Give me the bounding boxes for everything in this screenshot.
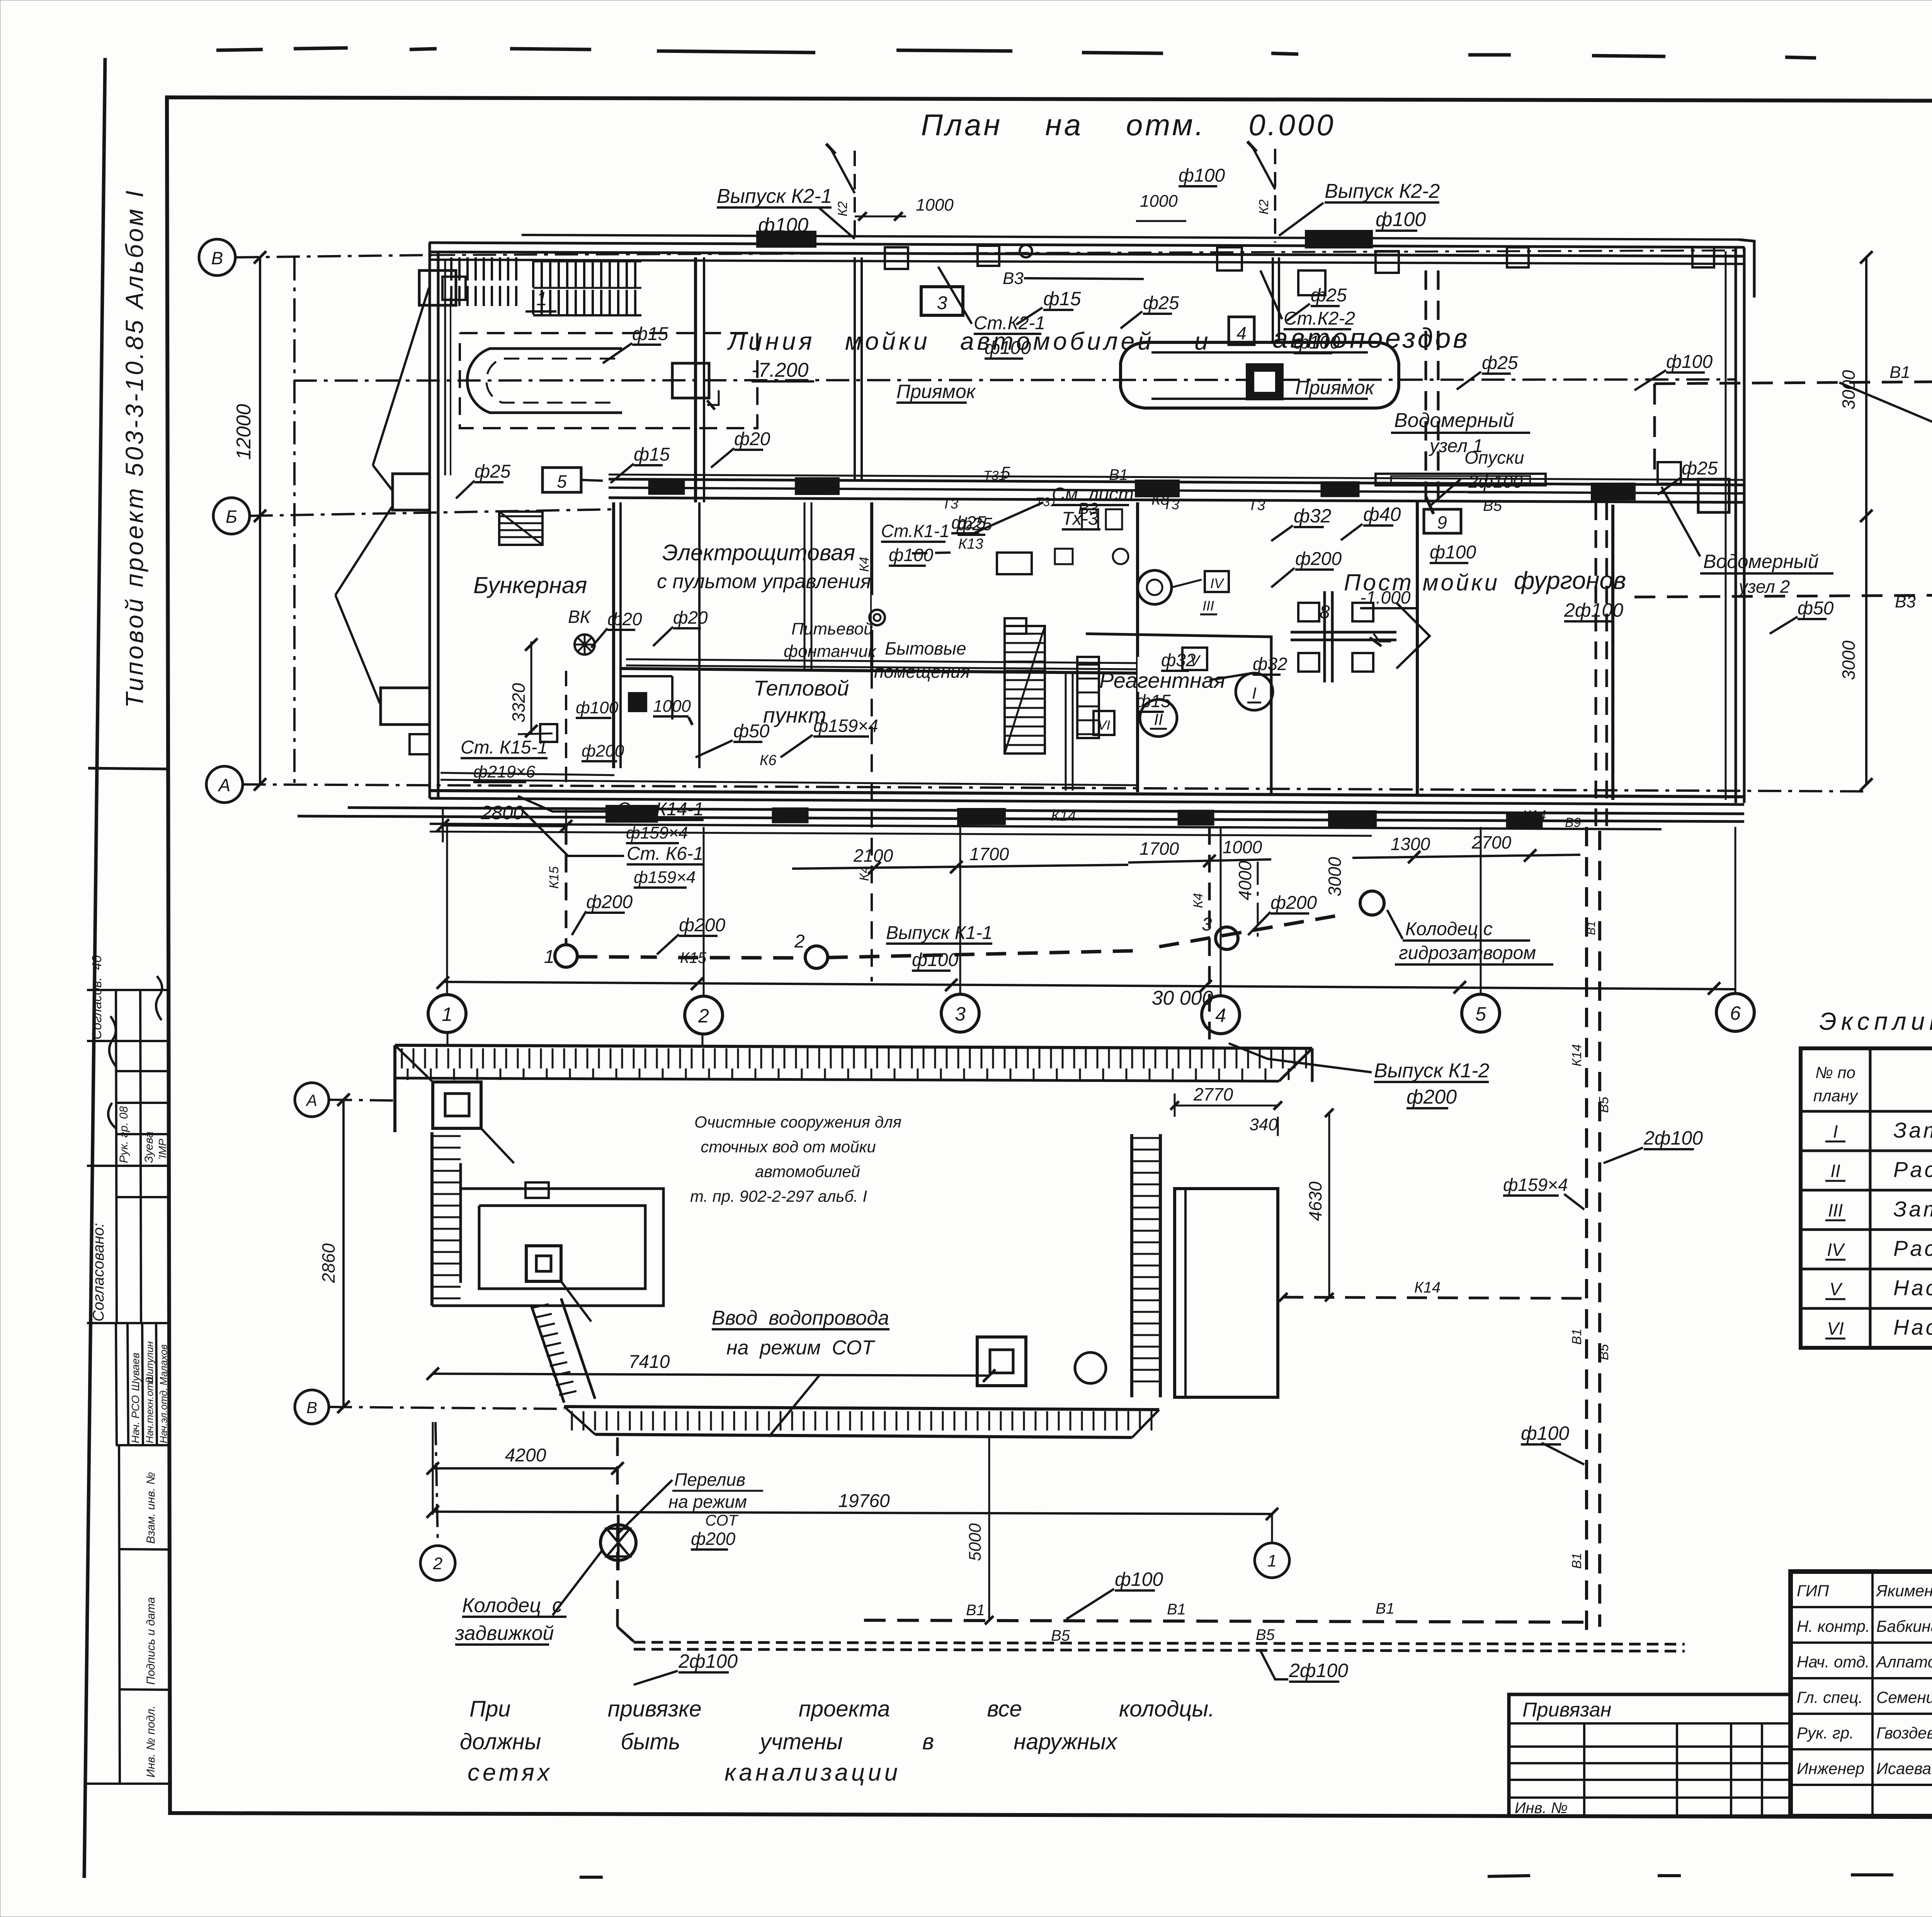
svg-text:Согласов. 40: Согласов. 40 bbox=[90, 955, 104, 1039]
pipes left wall bbox=[445, 259, 451, 475]
svg-text:В5: В5 bbox=[1483, 497, 1502, 514]
B1 horiz dashed bbox=[864, 1600, 1587, 1622]
och dim 2860 bbox=[318, 1094, 350, 1413]
svg-text:2: 2 bbox=[794, 931, 805, 952]
dim 1700 1000 bbox=[1128, 837, 1271, 867]
dim 2100 1700 bbox=[792, 844, 1128, 874]
bottom pipe blob2 bbox=[958, 809, 1005, 824]
svg-text:2: 2 bbox=[698, 1005, 709, 1027]
left strip divider bbox=[88, 768, 168, 769]
svg-text:2ф100: 2ф100 bbox=[1643, 1127, 1703, 1149]
left strip staff names bbox=[129, 1341, 169, 1443]
svg-text:I: I bbox=[1833, 1121, 1838, 1141]
svg-text:В1: В1 bbox=[966, 1602, 985, 1619]
svg-text:ф200: ф200 bbox=[1270, 893, 1317, 913]
svg-text:Согласовано:: Согласовано: bbox=[90, 1223, 107, 1322]
svg-text:Колодец с: Колодец с bbox=[1405, 919, 1493, 939]
och tank right bbox=[1175, 1189, 1278, 1397]
svg-text:19760: 19760 bbox=[838, 1491, 890, 1511]
svg-text:1000: 1000 bbox=[1223, 837, 1262, 857]
label f15 upper bbox=[611, 444, 670, 483]
bottom band blob4 bbox=[773, 808, 1542, 827]
table title bbox=[1819, 1007, 1932, 1035]
table frame bbox=[1801, 1048, 1932, 1348]
left strip staff rows bbox=[116, 1323, 170, 1445]
note line2 bbox=[460, 1729, 1118, 1754]
box 3 top bbox=[921, 287, 963, 315]
label f200 post bbox=[1271, 549, 1342, 587]
svg-text:на режим: на режим bbox=[668, 1492, 747, 1512]
svg-text:с пультом управления: с пультом управления bbox=[657, 570, 871, 593]
vypusk K2-2 bbox=[1279, 180, 1440, 236]
svg-text:Алпатов: Алпатов bbox=[1875, 1653, 1932, 1671]
och dim 7410 bbox=[427, 1352, 995, 1382]
svg-text:Очистные сооружения для: Очистные сооружения для bbox=[694, 1113, 901, 1131]
svg-text:2700: 2700 bbox=[1471, 832, 1512, 852]
och label pereliv bbox=[617, 1470, 763, 1550]
label st K14-1 bbox=[518, 796, 704, 843]
K14 horiz dashed bbox=[1279, 1279, 1587, 1301]
svg-text:Типовой проект 503-3-10.85 Аль: Типовой проект 503-3-10.85 Альбом I bbox=[121, 188, 148, 708]
svg-text:Инженер: Инженер bbox=[1797, 1759, 1864, 1778]
label opuski bbox=[1426, 447, 1524, 514]
label 5b bbox=[989, 463, 1020, 499]
svg-text:Якименко: Якименко bbox=[1876, 1582, 1932, 1600]
svg-text:При привязке проекта все колод: При привязке проекта все колодцы. bbox=[469, 1696, 1214, 1721]
svg-text:2770: 2770 bbox=[1193, 1084, 1233, 1104]
label f25 r3 bbox=[1457, 353, 1518, 390]
svg-text:Приямок: Приямок bbox=[1295, 377, 1375, 398]
axis circle 5 bbox=[1462, 827, 1500, 1032]
bottom pipe band bbox=[298, 808, 1744, 836]
och dim 2770 bbox=[1170, 1084, 1282, 1117]
svg-text:1300: 1300 bbox=[1391, 834, 1430, 854]
wall reagent bbox=[1086, 634, 1271, 794]
och dim 19760 bbox=[427, 1491, 1278, 1520]
label 2f100 right bbox=[1604, 1127, 1703, 1163]
svg-text:2800: 2800 bbox=[480, 802, 524, 823]
svg-text:-1.000: -1.000 bbox=[1360, 587, 1411, 607]
svg-text:СОТ: СОТ bbox=[705, 1512, 739, 1529]
left strip lower cells bbox=[87, 1445, 171, 1784]
box label 4 bbox=[1229, 317, 1254, 345]
left outer dashdot vertical bbox=[293, 257, 296, 784]
scan bottom edge dashes bbox=[580, 1873, 1932, 1877]
label f25 left bbox=[456, 461, 511, 498]
svg-text:ф159×4: ф159×4 bbox=[1503, 1175, 1568, 1195]
svg-text:ф100: ф100 bbox=[1294, 332, 1340, 353]
mid band blob1 bbox=[796, 478, 838, 494]
label f100 right bbox=[1634, 352, 1713, 390]
svg-text:I: I bbox=[1252, 684, 1257, 702]
och diag band bbox=[531, 1298, 595, 1403]
svg-text:1: 1 bbox=[1267, 1551, 1277, 1570]
svg-text:должны быть учтены в наружных: должны быть учтены в наружных bbox=[460, 1729, 1118, 1754]
svg-text:помещения: помещения bbox=[874, 662, 970, 682]
mid band blob2 bbox=[1136, 481, 1179, 496]
label liniya moiki bbox=[727, 323, 1470, 355]
wash pit left box bbox=[672, 363, 709, 398]
dim 4000 rot bbox=[1235, 861, 1258, 939]
leader lines upper left bbox=[335, 288, 429, 703]
svg-text:ф15: ф15 bbox=[632, 324, 668, 344]
small eq top2 bbox=[1217, 247, 1399, 295]
och dim 5000 bbox=[966, 1437, 993, 1624]
svg-text:3320: 3320 bbox=[509, 683, 529, 723]
svg-text:ф50: ф50 bbox=[1798, 598, 1834, 619]
svg-text:4: 4 bbox=[1236, 323, 1247, 343]
svg-text:К15: К15 bbox=[680, 949, 707, 966]
svg-text:9: 9 bbox=[1437, 512, 1447, 532]
vert pipe x2218 bbox=[855, 257, 862, 479]
dim 1000 top2 bbox=[1136, 192, 1186, 221]
svg-text:5: 5 bbox=[1475, 1003, 1486, 1025]
svg-text:Инв. № подл.: Инв. № подл. bbox=[145, 1706, 157, 1778]
equip circle IV bbox=[1138, 570, 1229, 614]
svg-text:плану: плану bbox=[1813, 1087, 1859, 1105]
svg-text:Б: Б bbox=[226, 507, 237, 527]
svg-text:ф15: ф15 bbox=[1136, 691, 1171, 711]
svg-text:В: В bbox=[211, 248, 223, 268]
svg-text:Гвоздев: Гвоздев bbox=[1876, 1724, 1932, 1742]
label f20 pair bbox=[591, 607, 708, 648]
well 3 bbox=[1202, 914, 1238, 949]
table row II bbox=[1825, 1157, 1932, 1182]
svg-text:Насос - дозатор: Насос - дозатор bbox=[1893, 1315, 1932, 1339]
label f200 bl1 bbox=[572, 892, 633, 935]
svg-text:ф200: ф200 bbox=[1406, 1086, 1457, 1108]
svg-text:Колодец с: Колодец с bbox=[462, 1594, 562, 1617]
label f100 1000 bbox=[576, 697, 692, 725]
label f159x4 teplo bbox=[781, 716, 878, 757]
svg-text:8: 8 bbox=[1320, 602, 1330, 623]
svg-text:ф25: ф25 bbox=[1682, 458, 1718, 479]
inv no text bbox=[1515, 1800, 1568, 1817]
wall x4180 bbox=[1611, 505, 1614, 800]
svg-text:К2: К2 bbox=[835, 201, 850, 216]
svg-text:Ст. К6-1: Ст. К6-1 bbox=[627, 844, 703, 864]
left wall block low bbox=[381, 688, 430, 725]
label f25 mid bbox=[951, 512, 986, 533]
svg-text:Перелив: Перелив bbox=[674, 1470, 745, 1490]
svg-text:Водомерный: Водомерный bbox=[1394, 409, 1514, 432]
wall x2950 bbox=[1136, 502, 1139, 792]
svg-text:Линия мойки автомобилей: Линия мойки автомобилей и bbox=[727, 327, 1211, 355]
svg-text:В3: В3 bbox=[1895, 592, 1916, 611]
label f25 r5 bbox=[957, 514, 992, 535]
title block staff Инженер bbox=[1797, 1759, 1931, 1778]
svg-text:Выпуск К2-1: Выпуск К2-1 bbox=[717, 185, 832, 208]
axis circle A bbox=[206, 766, 243, 803]
svg-text:ф100: ф100 bbox=[889, 545, 934, 565]
svg-text:Ст.К2-1: Ст.К2-1 bbox=[974, 313, 1045, 333]
svg-text:7410: 7410 bbox=[629, 1352, 670, 1372]
label f32 f40 bbox=[1271, 503, 1401, 541]
svg-text:фургонов: фургонов bbox=[1514, 566, 1626, 594]
svg-text:4200: 4200 bbox=[505, 1445, 546, 1466]
label pryamok left bbox=[896, 381, 976, 403]
vypusk K2-1 bbox=[717, 185, 855, 239]
svg-text:Расходный бак полиакриламид: Расходный бак полиакриламида bbox=[1893, 1236, 1932, 1260]
label f100 post9 bbox=[1424, 509, 1476, 563]
left strip rotated project title bbox=[121, 188, 148, 708]
dim 12000 rotated bbox=[233, 404, 255, 460]
svg-text:Ст. К15-1: Ст. К15-1 bbox=[461, 737, 548, 758]
well 4 s gidrozatvorom bbox=[1360, 891, 1384, 915]
label K6 on wall bbox=[760, 752, 777, 769]
svg-text:ф100: ф100 bbox=[1666, 352, 1713, 372]
svg-text:ф50: ф50 bbox=[733, 721, 770, 742]
left wall top fitting bbox=[419, 270, 466, 305]
label T3 K4 rot bbox=[857, 557, 872, 981]
label f200 bunker bbox=[582, 742, 624, 761]
svg-text:1700: 1700 bbox=[969, 844, 1009, 864]
svg-text:3: 3 bbox=[937, 293, 947, 313]
svg-text:2: 2 bbox=[433, 1554, 442, 1573]
label VK bbox=[568, 607, 592, 627]
label vodomerny1 bbox=[1391, 409, 1530, 456]
svg-text:ф15: ф15 bbox=[1043, 288, 1081, 310]
svg-text:ΊΜΡ: ΊΜΡ bbox=[156, 1139, 168, 1159]
label kolodec gidro bbox=[1387, 910, 1553, 964]
svg-text:ф32: ф32 bbox=[1253, 654, 1287, 674]
axis circle 4 bbox=[1202, 827, 1240, 1034]
svg-text:Насос - дозатор: Насос - дозатор bbox=[1893, 1276, 1932, 1300]
svg-text:К2: К2 bbox=[1257, 199, 1271, 214]
st K2-1 bbox=[938, 267, 1045, 359]
label st K6-1 bbox=[522, 810, 704, 888]
svg-text:Т31: Т31 bbox=[1036, 495, 1057, 509]
svg-text:ф25: ф25 bbox=[957, 514, 992, 534]
svg-text:IV: IV bbox=[1827, 1240, 1845, 1260]
svg-text:Ст.К1-1: Ст.К1-1 bbox=[881, 521, 949, 541]
table row VI bbox=[1825, 1315, 1932, 1339]
vert pipe opuski bbox=[1426, 270, 1438, 502]
label f15 wash bbox=[603, 324, 668, 363]
svg-text:ф25: ф25 bbox=[474, 461, 511, 482]
wash line axis bbox=[294, 379, 1735, 381]
bottom main dim line bbox=[437, 976, 1735, 995]
svg-text:В5: В5 bbox=[1597, 1344, 1611, 1360]
dim row left 2800 bbox=[437, 802, 572, 842]
pipes bottom inside bbox=[440, 773, 1138, 785]
svg-text:ф159×4: ф159×4 bbox=[813, 716, 878, 736]
svg-text:5: 5 bbox=[557, 471, 567, 492]
och top band bbox=[395, 1045, 1312, 1132]
vvod B1-1 bbox=[1839, 383, 1932, 465]
svg-text:План на отм. 0.000: План на отм. 0.000 bbox=[921, 108, 1336, 142]
wall hall left x1810 bbox=[696, 257, 704, 768]
svg-text:Взам. инв. №: Взам. инв. № bbox=[145, 1472, 157, 1544]
svg-text:ф100: ф100 bbox=[912, 950, 958, 970]
pipe K15 vertical dashed bbox=[547, 827, 566, 945]
svg-text:ф20: ф20 bbox=[607, 609, 642, 629]
svg-text:12000: 12000 bbox=[233, 404, 255, 460]
svg-text:ф100: ф100 bbox=[1179, 165, 1225, 186]
svg-text:2100: 2100 bbox=[853, 845, 893, 866]
svg-text:В1: В1 bbox=[1889, 363, 1910, 382]
label f200 bl2 bbox=[657, 915, 725, 954]
wash trough right outer bbox=[1121, 342, 1399, 408]
och B1 left stub bbox=[617, 1627, 634, 1641]
svg-text:Инв. №: Инв. № bbox=[1515, 1800, 1568, 1817]
svg-text:Бытовые: Бытовые bbox=[885, 638, 966, 658]
dim 1000 top1 bbox=[855, 196, 954, 221]
svg-text:задвижкой: задвижкой bbox=[455, 1622, 554, 1645]
label K14 on band bbox=[1051, 807, 1581, 830]
svg-text:ф159×4: ф159×4 bbox=[634, 868, 696, 887]
svg-text:В3: В3 bbox=[1003, 269, 1024, 288]
label B1 B3 K8 bbox=[983, 466, 1170, 517]
svg-text:VI: VI bbox=[1827, 1318, 1844, 1339]
label furgonov bbox=[1514, 566, 1626, 621]
label 1 top bbox=[526, 288, 556, 311]
svg-text:ф100: ф100 bbox=[1376, 208, 1426, 231]
svg-text:Т3: Т3 bbox=[1248, 497, 1265, 514]
svg-text:Рук. гр.: Рук. гр. bbox=[1797, 1724, 1854, 1742]
svg-text:ф200: ф200 bbox=[586, 892, 633, 912]
label B5 small bbox=[1483, 497, 1502, 514]
svg-text:Рук. гр. 08: Рук. гр. 08 bbox=[117, 1106, 130, 1163]
svg-text:ф32: ф32 bbox=[1161, 650, 1196, 670]
svg-text:Выпуск К1-2: Выпуск К1-2 bbox=[1374, 1060, 1489, 1082]
label bunkernaya bbox=[473, 572, 587, 598]
svg-text:ф200: ф200 bbox=[582, 742, 624, 760]
bunker pipes bbox=[621, 676, 672, 720]
svg-text:Бабкина: Бабкина bbox=[1876, 1617, 1932, 1635]
och U duct bbox=[432, 1182, 663, 1306]
label f15 top bbox=[1016, 288, 1081, 325]
wash trough left bbox=[467, 349, 622, 413]
riser K2-2 bbox=[1247, 141, 1275, 243]
svg-text:В1: В1 bbox=[1167, 1601, 1186, 1618]
privyazan block bbox=[1509, 1694, 1791, 1816]
svg-text:III: III bbox=[1828, 1200, 1843, 1220]
left strip signatures bbox=[108, 976, 162, 1128]
svg-text:Семенцова: Семенцова bbox=[1876, 1688, 1932, 1706]
svg-text:Т3: Т3 bbox=[942, 496, 958, 512]
svg-text:ф200: ф200 bbox=[1295, 549, 1342, 569]
och axis 2 stem bbox=[702, 1034, 704, 1045]
svg-text:К14: К14 bbox=[1414, 1279, 1440, 1296]
svg-text:3000: 3000 bbox=[1838, 370, 1859, 410]
svg-text:2ф100: 2ф100 bbox=[678, 1650, 738, 1672]
svg-text:Подпись и дата: Подпись и дата bbox=[145, 1597, 157, 1685]
label 2f100 bottom mid bbox=[1260, 1649, 1348, 1682]
svg-text:ф40: ф40 bbox=[1363, 503, 1401, 525]
och valve bbox=[600, 1515, 636, 1570]
left strip text ruk gr bbox=[117, 1106, 168, 1163]
svg-text:III: III bbox=[1202, 598, 1214, 614]
svg-text:ГИП: ГИП bbox=[1797, 1582, 1829, 1600]
right dim 3000a bbox=[1838, 251, 1872, 522]
svg-text:К15: К15 bbox=[547, 866, 561, 889]
och inlet squares bbox=[977, 1337, 1106, 1386]
svg-text:V: V bbox=[1830, 1279, 1843, 1299]
top pipe band bbox=[429, 235, 1745, 264]
svg-text:автомобилей: автомобилей bbox=[755, 1162, 860, 1180]
svg-text:узел 2: узел 2 bbox=[1738, 577, 1790, 597]
axis circle 3 bbox=[941, 827, 979, 1032]
vert dashed pair right bbox=[1587, 827, 1600, 1638]
label f32 reag b bbox=[1209, 654, 1287, 680]
pipes vert t3 bbox=[804, 502, 811, 671]
label bytovye bbox=[874, 638, 970, 682]
bunker K dash bbox=[518, 671, 566, 791]
svg-text:Шуваев: Шуваев bbox=[129, 1352, 141, 1391]
svg-text:К4: К4 bbox=[1191, 893, 1206, 908]
och title text bbox=[690, 1113, 901, 1205]
label reagentnaya bbox=[1099, 668, 1225, 692]
svg-text:К13: К13 bbox=[958, 536, 983, 552]
wall teplo top bbox=[621, 668, 1140, 673]
svg-text:4000: 4000 bbox=[1235, 861, 1255, 900]
svg-text:Шипулин: Шипулин bbox=[144, 1341, 155, 1383]
svg-text:ф219×6: ф219×6 bbox=[473, 762, 536, 781]
pipe K15 horizontal dashed bbox=[577, 915, 1341, 966]
svg-text:Нач.техн.отд: Нач.техн.отд bbox=[144, 1377, 155, 1443]
svg-text:В5: В5 bbox=[1256, 1626, 1275, 1643]
bottom wall bbox=[430, 791, 1744, 805]
svg-text:фонтанчик: фонтанчик bbox=[784, 642, 877, 661]
axis circle V bbox=[199, 239, 235, 276]
svg-text:Выпуск К1-1: Выпуск К1-1 bbox=[886, 923, 992, 943]
left strip text soglasovano bbox=[90, 1223, 107, 1322]
svg-text:К6: К6 bbox=[760, 752, 777, 769]
VK hatched circle bbox=[575, 634, 595, 655]
equip circle I bbox=[1236, 673, 1273, 710]
och label vvod bbox=[712, 1307, 889, 1437]
svg-text:ф100: ф100 bbox=[1430, 542, 1476, 563]
svg-text:-7.200: -7.200 bbox=[752, 359, 809, 381]
title block outer frame bbox=[1791, 1572, 1932, 1816]
svg-text:Затворный бак Al₂ (SO₄): Затворный бак Al₂ (SO₄)₃ bbox=[1893, 1118, 1932, 1142]
svg-text:Ввод водопровода: Ввод водопровода bbox=[712, 1307, 889, 1329]
svg-text:ф200: ф200 bbox=[679, 915, 725, 936]
label 5 box bbox=[543, 468, 603, 492]
svg-text:Бункерная: Бункерная bbox=[473, 572, 587, 598]
left strip cell inv bbox=[145, 1706, 157, 1778]
label vypusk K1-1 bbox=[886, 923, 992, 971]
svg-text:А: А bbox=[218, 775, 231, 795]
bottom pipe blob1 bbox=[607, 806, 657, 822]
svg-text:ф100: ф100 bbox=[1521, 1422, 1569, 1444]
left strip text sogl40 bbox=[90, 955, 104, 1039]
svg-text:ф200: ф200 bbox=[691, 1529, 736, 1549]
dim 1300 2700 bbox=[1352, 832, 1580, 863]
och bottom band bbox=[564, 1407, 1159, 1437]
label f25 r2 bbox=[1287, 285, 1347, 321]
och axis circle 2 bottom bbox=[420, 1422, 455, 1580]
svg-text:Малахов: Малахов bbox=[158, 1344, 169, 1385]
vert pipe x4130 dashed bbox=[1596, 502, 1607, 827]
svg-text:3000: 3000 bbox=[1325, 857, 1345, 896]
top wall outer bbox=[429, 243, 1745, 256]
och dim 4630 bbox=[1305, 1109, 1333, 1301]
table row IV bbox=[1825, 1236, 1932, 1260]
svg-text:В1: В1 bbox=[1376, 1600, 1395, 1617]
stairs bunker bbox=[499, 512, 543, 545]
och left band bbox=[432, 1132, 461, 1306]
left wall bbox=[430, 243, 438, 798]
svg-text:ф100: ф100 bbox=[1115, 1568, 1163, 1590]
svg-text:К4: К4 bbox=[857, 557, 872, 572]
svg-text:В1: В1 bbox=[1570, 1328, 1584, 1345]
svg-text:К8: К8 bbox=[1151, 491, 1170, 508]
label B3 top bbox=[1003, 269, 1144, 288]
svg-text:5: 5 bbox=[1001, 463, 1010, 482]
mid wall band bbox=[609, 475, 1744, 502]
